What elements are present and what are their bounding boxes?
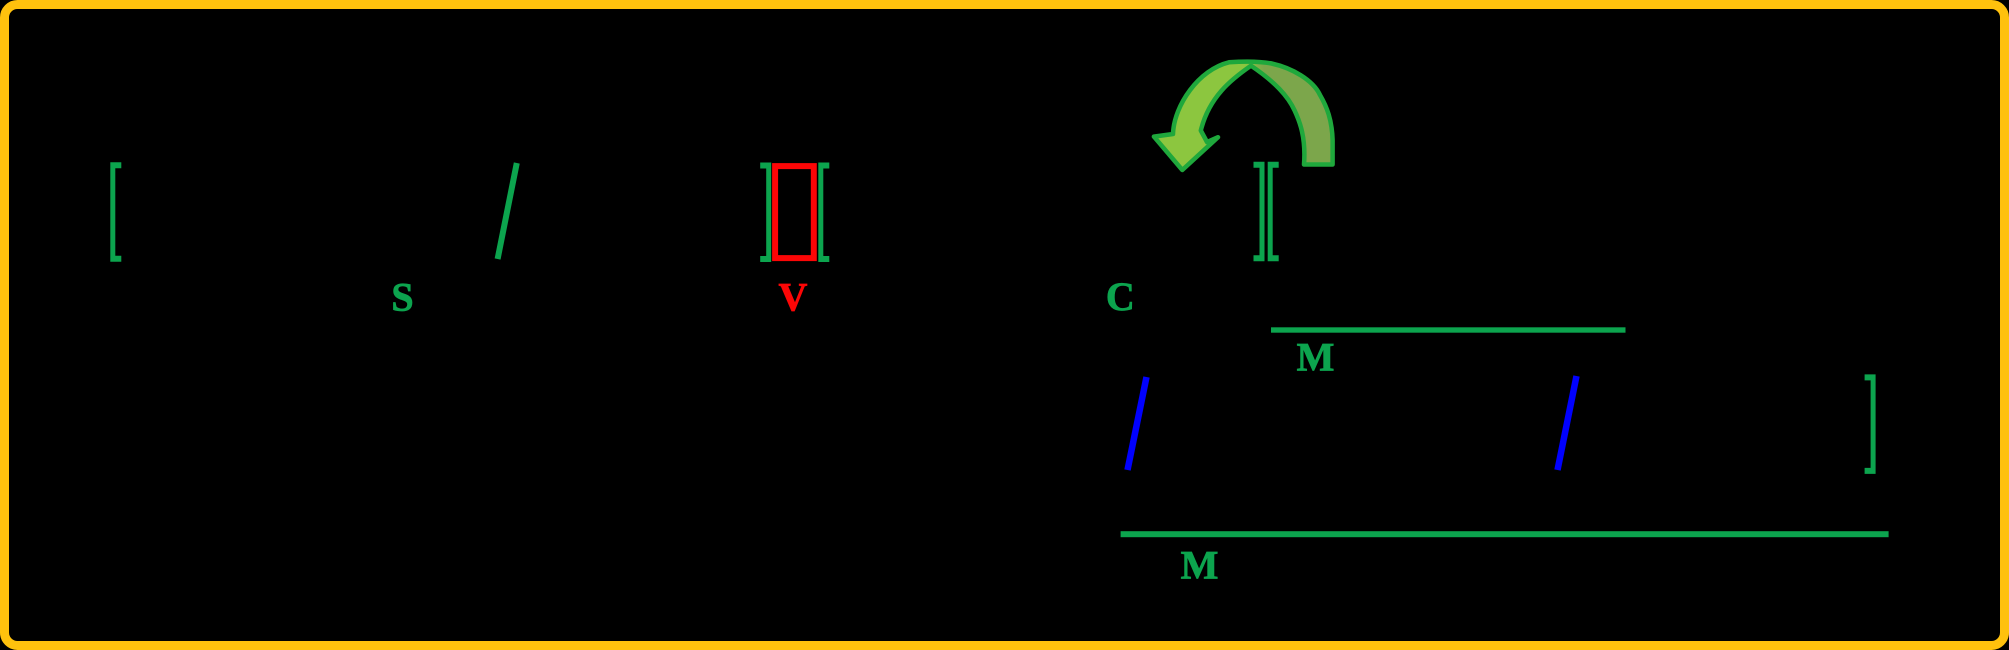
svg-text:C: C — [1106, 274, 1135, 319]
right green bracket ] (closing) — [1865, 374, 1876, 474]
second M underline (modifier line) — [1121, 531, 1889, 537]
green bracket ] of ][ pair — [1254, 162, 1265, 262]
left green bracket [ (opening) — [110, 162, 121, 261]
blue slash 1 — [1128, 377, 1147, 470]
green bracket ] (closing, before red box) — [760, 163, 771, 263]
first M underline (modifier line) — [1271, 327, 1626, 332]
svg-text:M: M — [1297, 335, 1335, 380]
curved green arrow (arch with down-left arrowhead) — [1154, 62, 1333, 170]
red tofu box (missing glyph verb) — [775, 166, 814, 258]
green slash / (subject divider) — [498, 163, 517, 259]
svg-text:V: V — [779, 275, 808, 320]
green bracket [ (opening, after red box) — [818, 163, 829, 263]
svg-text:S: S — [391, 275, 413, 320]
green bracket [ of ][ pair — [1268, 162, 1279, 262]
svg-text:M: M — [1181, 543, 1219, 588]
blue slash 2 — [1558, 376, 1577, 470]
